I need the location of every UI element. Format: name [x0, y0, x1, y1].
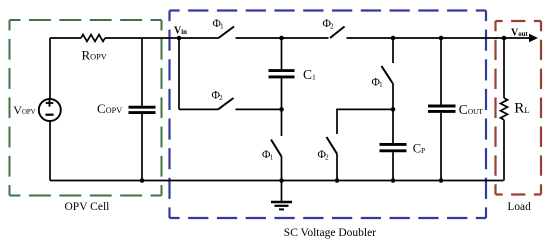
- node CP bottom dot: [391, 178, 396, 183]
- wire PHI1 vertical top lead: [392, 38, 394, 63]
- wire PHI1 vertical bottom lead: [392, 83, 394, 109]
- wire RL bottom lead: [503, 120, 505, 181]
- source plus sign: [46, 99, 54, 106]
- wire left vertical upper: [49, 38, 51, 99]
- node CP top dot: [391, 107, 396, 112]
- svg-text:RL: RL: [514, 101, 529, 117]
- wire COUT bottom lead: [440, 113, 442, 181]
- source VOPV circle: [39, 99, 61, 121]
- svg-text:Φ2: Φ2: [212, 90, 224, 103]
- wire row2 left: [179, 108, 218, 110]
- resistor RL: [501, 98, 508, 120]
- wire C1 bottom lead: [281, 78, 283, 136]
- switch PHI1 top blade: [219, 27, 235, 39]
- wire bottom rail: [50, 180, 504, 182]
- wire top rail mid segment: [236, 37, 329, 39]
- node COPV bottom dot: [140, 178, 145, 183]
- svg-text:Φ1: Φ1: [262, 149, 274, 162]
- svg-text:Φ2: Φ2: [323, 18, 335, 31]
- wire COUT top lead: [440, 38, 442, 105]
- svg-text:C1: C1: [303, 67, 316, 82]
- svg-text:SC Voltage Doubler: SC Voltage Doubler: [284, 227, 376, 239]
- node PHI2 bottom dot: [335, 178, 340, 183]
- switch PHI1 lower blade: [271, 140, 282, 157]
- Load dashed box: [496, 21, 542, 195]
- node Vout dot: [502, 36, 507, 41]
- switch PHI1 vertical blade: [382, 66, 393, 83]
- wire COPV top lead: [141, 38, 143, 106]
- node Vin dot: [177, 36, 182, 41]
- SC Voltage Doubler dashed box: [170, 11, 487, 219]
- svg-text:Vout: Vout: [511, 28, 528, 39]
- capacitor COUT: [428, 106, 456, 111]
- svg-text:Φ1: Φ1: [372, 77, 384, 90]
- source minus sign: [45, 114, 53, 116]
- svg-text:CP: CP: [413, 142, 425, 156]
- wire COPV bottom lead: [141, 114, 143, 181]
- wire top rail right segment: [347, 37, 505, 39]
- wire row2b corner: [337, 109, 393, 134]
- capacitor COPV: [129, 107, 156, 112]
- svg-text:ROPV: ROPV: [82, 48, 107, 63]
- wire left vertical lower: [49, 121, 51, 181]
- capacitor CP: [380, 144, 407, 150]
- svg-text:Vin: Vin: [174, 26, 187, 37]
- ground symbol: [271, 181, 292, 210]
- node C1 bottom dot: [279, 107, 284, 112]
- wire row2 right: [236, 108, 282, 110]
- switch PHI2 top blade: [330, 27, 345, 39]
- wire CP top lead: [392, 109, 394, 143]
- wire PHI2 lower to rail: [336, 154, 338, 181]
- wire CP bottom lead: [392, 152, 394, 180]
- svg-text:Φ1: Φ1: [213, 18, 225, 31]
- node ground dot: [279, 178, 284, 183]
- wire Vin down: [178, 38, 180, 109]
- svg-text:COPV: COPV: [97, 101, 122, 116]
- wire RL top lead: [503, 38, 505, 98]
- wire top rail left segment: [50, 37, 81, 39]
- node phi1v top dot: [391, 36, 396, 41]
- Vout arrow: [504, 34, 538, 43]
- resistor ROPV: [81, 35, 105, 42]
- node C1 top dot: [279, 36, 284, 41]
- wire PHI1 lower to rail: [281, 157, 283, 181]
- svg-text:Φ2: Φ2: [318, 149, 330, 162]
- node COUT top dot: [439, 36, 444, 41]
- switch PHI2 lower blade: [327, 137, 338, 154]
- switch PHI2 row2 blade: [218, 98, 234, 109]
- node COUT bottom dot: [439, 178, 444, 183]
- wire C1 top lead: [281, 38, 283, 69]
- svg-text:VOPV: VOPV: [13, 103, 35, 117]
- OPV Cell dashed box: [10, 20, 162, 196]
- svg-text:COUT: COUT: [459, 102, 484, 117]
- capacitor C1: [269, 71, 295, 77]
- svg-text:Load: Load: [508, 201, 532, 213]
- wire top rail Vin segment: [105, 37, 219, 39]
- svg-text:OPV Cell: OPV Cell: [65, 201, 110, 213]
